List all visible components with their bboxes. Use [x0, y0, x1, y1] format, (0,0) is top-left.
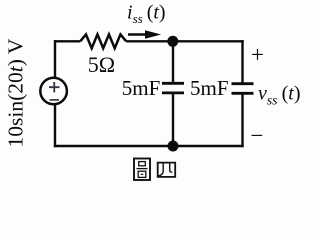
svg-text:5mF: 5mF — [122, 76, 161, 100]
resistor R1 zigzag — [80, 34, 126, 48]
current arrow i_ss — [128, 33, 147, 36]
svg-text:10sin(20t) V: 10sin(20t) V — [4, 38, 28, 147]
voltage source minus sign — [50, 99, 60, 101]
wire bottom horizontal — [54, 145, 244, 147]
node junction top — [167, 36, 178, 47]
capacitor C1 bottom lead — [172, 93, 174, 146]
capacitor C2 right: top lead — [241, 40, 243, 84]
wire top horizontal from resistor to right corner — [126, 40, 244, 42]
svg-text:−: − — [251, 123, 264, 148]
node junction bottom — [168, 141, 179, 152]
capacitor C1 middle: top lead — [172, 41, 174, 83]
wire top-left horizontal segment — [55, 40, 80, 42]
capacitor C1 plates — [162, 83, 184, 93]
svg-text:+: + — [251, 42, 264, 67]
wire left vertical lower (source bottom lead) — [54, 105, 56, 147]
svg-text:5mF: 5mF — [190, 76, 229, 100]
svg-text:5Ω: 5Ω — [88, 52, 115, 77]
voltage source VS circle — [40, 78, 67, 105]
capacitor C2 plates — [232, 84, 254, 94]
voltage source plus sign — [49, 82, 60, 92]
figure caption 四 (drawn) — [158, 163, 176, 177]
wire left vertical upper (source top lead) — [54, 40, 56, 77]
capacitor C2 bottom lead — [241, 93, 243, 147]
figure caption 圖 (drawn) — [134, 159, 150, 181]
